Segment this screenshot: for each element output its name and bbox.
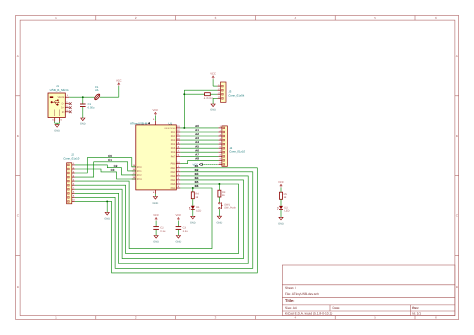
connector J3 Conn_01x04 <box>217 82 244 102</box>
svg-text:PA1: PA1 <box>171 131 176 134</box>
ground under J3 <box>210 104 216 112</box>
ground under U1 <box>153 194 159 205</box>
svg-text:Id: 1/1: Id: 1/1 <box>412 312 421 316</box>
svg-text:2.2u: 2.2u <box>183 230 189 233</box>
svg-text:PB1: PB1 <box>171 167 176 170</box>
svg-text:USB_B_Micro: USB_B_Micro <box>50 88 69 92</box>
title block <box>282 265 455 316</box>
svg-text:SW_Push: SW_Push <box>224 207 236 210</box>
svg-text:A: A <box>456 54 458 58</box>
wire to ground under J2 bus <box>106 201 108 212</box>
power flag VCC (USB) <box>116 79 122 85</box>
svg-text:B6: B6 <box>195 184 199 188</box>
svg-text:VCC: VCC <box>153 109 159 112</box>
wire J1 shield to ground <box>55 122 60 125</box>
power flag VCC (J3) <box>210 73 217 87</box>
ground under C1 <box>80 118 86 126</box>
svg-text:Conn_01x10: Conn_01x10 <box>63 156 79 160</box>
svg-text:C3: C3 <box>111 168 115 172</box>
svg-text:LED: LED <box>196 209 201 212</box>
wire fuse to VCC <box>100 86 119 97</box>
svg-text:PB4: PB4 <box>171 179 176 182</box>
svg-text:PC0: PC0 <box>137 166 142 169</box>
svg-text:VBUS: VBUS <box>57 96 64 99</box>
svg-text:PA2: PA2 <box>171 135 176 138</box>
svg-text:Rev:: Rev: <box>412 306 419 310</box>
resistor R5 1k <box>280 192 288 206</box>
capacitor C3 2.2u <box>176 227 189 236</box>
junction J3 net at R2 <box>183 93 185 95</box>
connector J2 Conn_01x10 <box>63 153 79 204</box>
svg-text:PB6: PB6 <box>171 187 176 190</box>
svg-text:Size: A4: Size: A4 <box>285 306 297 310</box>
svg-text:File: ATtinyUSB-dev.sch: File: ATtinyUSB-dev.sch <box>285 292 319 296</box>
wire VBUS from J1 to fuse <box>69 96 94 98</box>
svg-text:PA5: PA5 <box>171 147 176 150</box>
svg-text:GND: GND <box>104 218 110 221</box>
svg-text:Conn_01x04: Conn_01x04 <box>228 93 244 97</box>
svg-text:VCC: VCC <box>210 73 216 76</box>
wire net A1 PA1 to J4 pin 2 <box>180 128 218 132</box>
svg-text:PA7: PA7 <box>171 155 176 158</box>
ground under D2 <box>278 217 284 225</box>
ground under J1 <box>54 125 60 133</box>
power flag VCC (C3) <box>176 214 182 226</box>
svg-text:PB2: PB2 <box>171 171 176 174</box>
svg-text:VCC: VCC <box>176 214 182 217</box>
svg-text:PB5: PB5 <box>171 183 176 186</box>
svg-text:Date:: Date: <box>333 306 341 310</box>
wire net B5 PB5 to J2 pin 6 <box>75 180 239 254</box>
ground under J2 bus <box>104 212 110 220</box>
power flag VCC (C2) <box>153 214 159 226</box>
svg-text:GND: GND <box>54 129 60 132</box>
ground under D1 <box>190 210 196 225</box>
svg-text:GND: GND <box>80 123 86 126</box>
IC U1 ATtinyUSB-M <box>130 118 180 194</box>
wire net A6 PA6 to J4 pin 7 <box>180 148 218 152</box>
push button SW1 <box>219 197 237 216</box>
svg-text:C1: C1 <box>108 158 112 162</box>
wire net A7 PA7 to J4 pin 8 <box>180 152 218 156</box>
capacitor C2 0.1u <box>153 227 166 236</box>
svg-text:PB0: PB0 <box>171 163 176 166</box>
svg-text:2A: 2A <box>95 89 98 92</box>
svg-text:PA4: PA4 <box>171 143 176 146</box>
ground under C2 <box>153 236 159 244</box>
svg-text:PC2: PC2 <box>137 174 142 177</box>
wire net C0 J2 pin 3 to U1 <box>75 154 136 173</box>
resistor R2 4.7k <box>184 93 217 101</box>
wire net B1 PB1 to J2 pin 10 <box>75 164 257 273</box>
wire net B4 PB4 to J2 pin 7 <box>75 176 244 259</box>
wire net A3 PA3 to J4 pin 4 <box>180 136 218 140</box>
svg-text:PA3: PA3 <box>171 139 176 142</box>
svg-text:RESET/PA0: RESET/PA0 <box>164 127 176 130</box>
svg-text:B: B <box>456 134 458 138</box>
wire net B2 PB2 to J2 pin 9 <box>75 168 253 268</box>
svg-text:GND: GND <box>176 241 182 244</box>
junction PB5 switch tap <box>218 183 220 185</box>
svg-text:PB3: PB3 <box>171 175 176 178</box>
power flag VCC (D2) <box>278 181 284 192</box>
ground under C3 <box>176 236 182 244</box>
no-connect X pins 2-4 of J1 <box>69 102 72 113</box>
svg-text:PC3: PC3 <box>137 178 142 181</box>
wire net B6 PB6 to J2 pin 5 <box>75 181 212 249</box>
LED D1 <box>189 199 201 213</box>
resistor R4 1k <box>191 188 199 199</box>
svg-text:0.05u: 0.05u <box>88 106 95 109</box>
svg-text:GND: GND <box>278 223 284 226</box>
wire J3 pin 4 to ground <box>213 98 217 104</box>
wire net C2 J2 pin 1 to U1 <box>75 164 136 175</box>
wire net A4 PA4 to J4 pin 5 <box>180 140 218 144</box>
junction J2 pin 10 to ground tap <box>106 200 108 202</box>
wire J3 pin 2 to PA0 <box>184 90 217 128</box>
svg-text:A8: A8 <box>195 156 199 160</box>
svg-text:VCC: VCC <box>153 214 159 217</box>
wire net A5 PA5 to J4 pin 6 <box>180 144 218 148</box>
svg-text:Title:: Title: <box>285 298 294 303</box>
resistor R3 1k <box>218 184 226 197</box>
wire net A2 PA2 to J4 pin 3 <box>180 132 218 136</box>
wire net C1 J2 pin 4 to U1 <box>75 158 136 177</box>
svg-text:0.1u: 0.1u <box>160 230 166 233</box>
svg-text:GND: GND <box>153 202 159 205</box>
power flag VCC (U1) <box>153 109 159 121</box>
connector J1 USB_B_Micro <box>48 84 69 122</box>
svg-text:GND: GND <box>210 109 216 112</box>
capacitor C1 <box>80 97 95 118</box>
svg-text:LED: LED <box>284 210 289 213</box>
svg-text:KiCad E.D.A. kicad (5.1.8-0-1: KiCad E.D.A. kicad (5.1.8-0-10.1) <box>285 312 332 316</box>
wire net A8 PB0 to J4 pin 9 <box>180 156 218 163</box>
svg-text:GND: GND <box>217 222 223 225</box>
svg-text:B: B <box>17 134 19 138</box>
svg-text:PC1: PC1 <box>137 170 142 173</box>
svg-text:A: A <box>17 54 19 58</box>
svg-text:D+: D+ <box>61 107 65 110</box>
junction PB6 LED tap <box>192 187 194 189</box>
svg-text:Conn_01x10: Conn_01x10 <box>229 150 245 154</box>
wire net A0 PA0 to J4 pin 1 <box>180 124 218 128</box>
connector J4 Conn_01x10 <box>218 125 245 166</box>
svg-text:PA6: PA6 <box>171 151 176 154</box>
global label VCC on J4 pin 10 <box>193 163 219 166</box>
svg-text:GND: GND <box>153 241 159 244</box>
svg-text:4.7k R2: 4.7k R2 <box>204 97 213 100</box>
wire net C3 J2 pin 2 to U1 <box>75 168 136 179</box>
wire net B3 PB3 to J2 pin 8 <box>75 172 248 264</box>
LED D2 <box>277 206 289 217</box>
fuse F1 <box>94 86 101 101</box>
svg-text:VCC: VCC <box>278 181 284 184</box>
junction J3 net at PA0 <box>183 127 185 129</box>
svg-text:Sheet: /: Sheet: / <box>285 286 296 290</box>
svg-text:VCC: VCC <box>116 79 122 82</box>
junction VBUS-C1 <box>82 96 84 98</box>
svg-text:ID: ID <box>62 111 65 114</box>
ground under SW1 <box>217 216 223 225</box>
svg-text:D-: D- <box>62 103 65 106</box>
svg-text:GND: GND <box>190 222 196 225</box>
